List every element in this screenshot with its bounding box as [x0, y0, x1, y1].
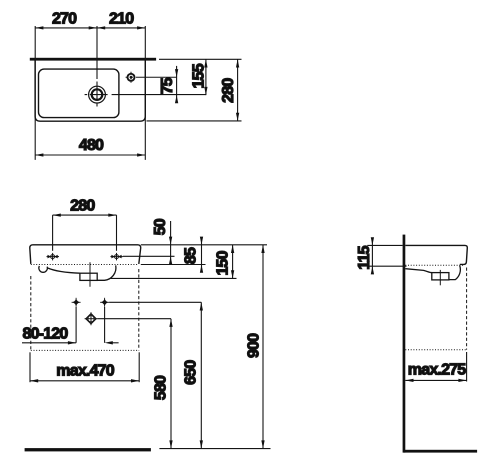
wire: supply droppers	[75, 307, 77, 343]
dimension 900	[262, 245, 264, 449]
svg-text:50: 50	[152, 218, 169, 235]
svg-text:max.470: max.470	[56, 363, 114, 380]
basin profile (side)	[405, 245, 467, 264]
dimension 115	[367, 244, 402, 246]
dimension 75 (plan)	[176, 66, 178, 103]
wire: dashed dropper left	[30, 276, 32, 350]
hidden bottom edge	[31, 264, 139, 266]
dimension 150	[232, 245, 234, 279]
svg-text:150: 150	[214, 250, 231, 275]
wire: dotted zone bottom	[31, 349, 139, 351]
dimension 580	[170, 319, 172, 449]
wire: drain line to 580	[97, 318, 171, 320]
svg-text:max.275: max.275	[408, 362, 466, 379]
dimension 280 (plan)	[237, 59, 239, 121]
dimension 50	[170, 221, 172, 263]
dimension 650	[200, 302, 202, 448]
supply connection right	[100, 298, 109, 307]
mounting hole left	[47, 253, 60, 261]
bowl	[39, 69, 119, 118]
floor (side)	[404, 450, 478, 453]
dimension 480	[35, 154, 145, 156]
wire: dashed dropper right	[138, 269, 140, 350]
wire: body bottom extension	[141, 264, 206, 266]
svg-text:280: 280	[70, 198, 95, 215]
underside (side)	[405, 269, 432, 273]
wire: underside extension	[111, 277, 237, 279]
svg-text:580: 580	[152, 375, 169, 400]
trap cover arc	[97, 265, 116, 280]
svg-text:75: 75	[159, 77, 176, 94]
svg-text:280: 280	[220, 78, 237, 103]
supply connection left	[72, 298, 81, 307]
wire: supply line to 650	[109, 301, 201, 303]
wire: floor extension	[159, 448, 270, 450]
wire: extension right of wall	[159, 58, 242, 60]
wire: drain centerline (side)	[439, 270, 441, 285]
dimension 280 (front)	[53, 215, 117, 251]
wire: dotted zone bottom (side)	[405, 349, 466, 351]
wire: rim extension line	[141, 244, 267, 246]
mounting hole right	[110, 253, 123, 261]
wire: small hole cross	[126, 76, 177, 78]
drain box (front)	[80, 273, 97, 280]
svg-text:115: 115	[356, 245, 373, 269]
tap hole	[89, 86, 106, 103]
dimension max.275	[405, 379, 466, 381]
wire: extension bottom right (plan)	[147, 120, 242, 122]
svg-text:155: 155	[190, 63, 207, 88]
dimension 80-120	[22, 342, 76, 344]
wire: drain centerline (front)	[89, 262, 91, 287]
dimension 210	[97, 26, 105, 29]
underside curve	[47, 268, 80, 273]
wire: dashed dropper (side)	[466, 268, 468, 350]
floor line (front)	[25, 448, 151, 451]
trap cover arc (side)	[449, 266, 460, 280]
wall (side)	[403, 235, 406, 453]
svg-text:270: 270	[52, 11, 77, 28]
wire: right extension (side)	[466, 352, 468, 382]
dimension max.470	[29, 352, 31, 382]
svg-text:480: 480	[79, 137, 104, 154]
drain outlet symbol	[85, 312, 98, 325]
svg-text:650: 650	[183, 360, 200, 385]
fixing bump	[39, 266, 47, 272]
wire: hole line extension	[123, 255, 175, 257]
svg-text:85: 85	[183, 247, 200, 264]
basin body (front)	[30, 245, 141, 264]
wire: tap centerline vertical	[96, 26, 98, 107]
svg-text:80-120: 80-120	[22, 325, 68, 342]
drain box (side)	[432, 273, 449, 280]
hidden bottom edge (side)	[405, 264, 463, 266]
dimension 85	[201, 237, 203, 271]
small hole	[128, 74, 135, 81]
basin outline (plan)	[35, 59, 145, 121]
svg-text:900: 900	[245, 333, 262, 358]
svg-text:210: 210	[109, 11, 134, 28]
wall	[30, 58, 156, 61]
dimension 270	[35, 26, 145, 160]
wire: tap centerline horizontal	[85, 94, 206, 96]
dimension 155 (plan)	[205, 59, 207, 95]
